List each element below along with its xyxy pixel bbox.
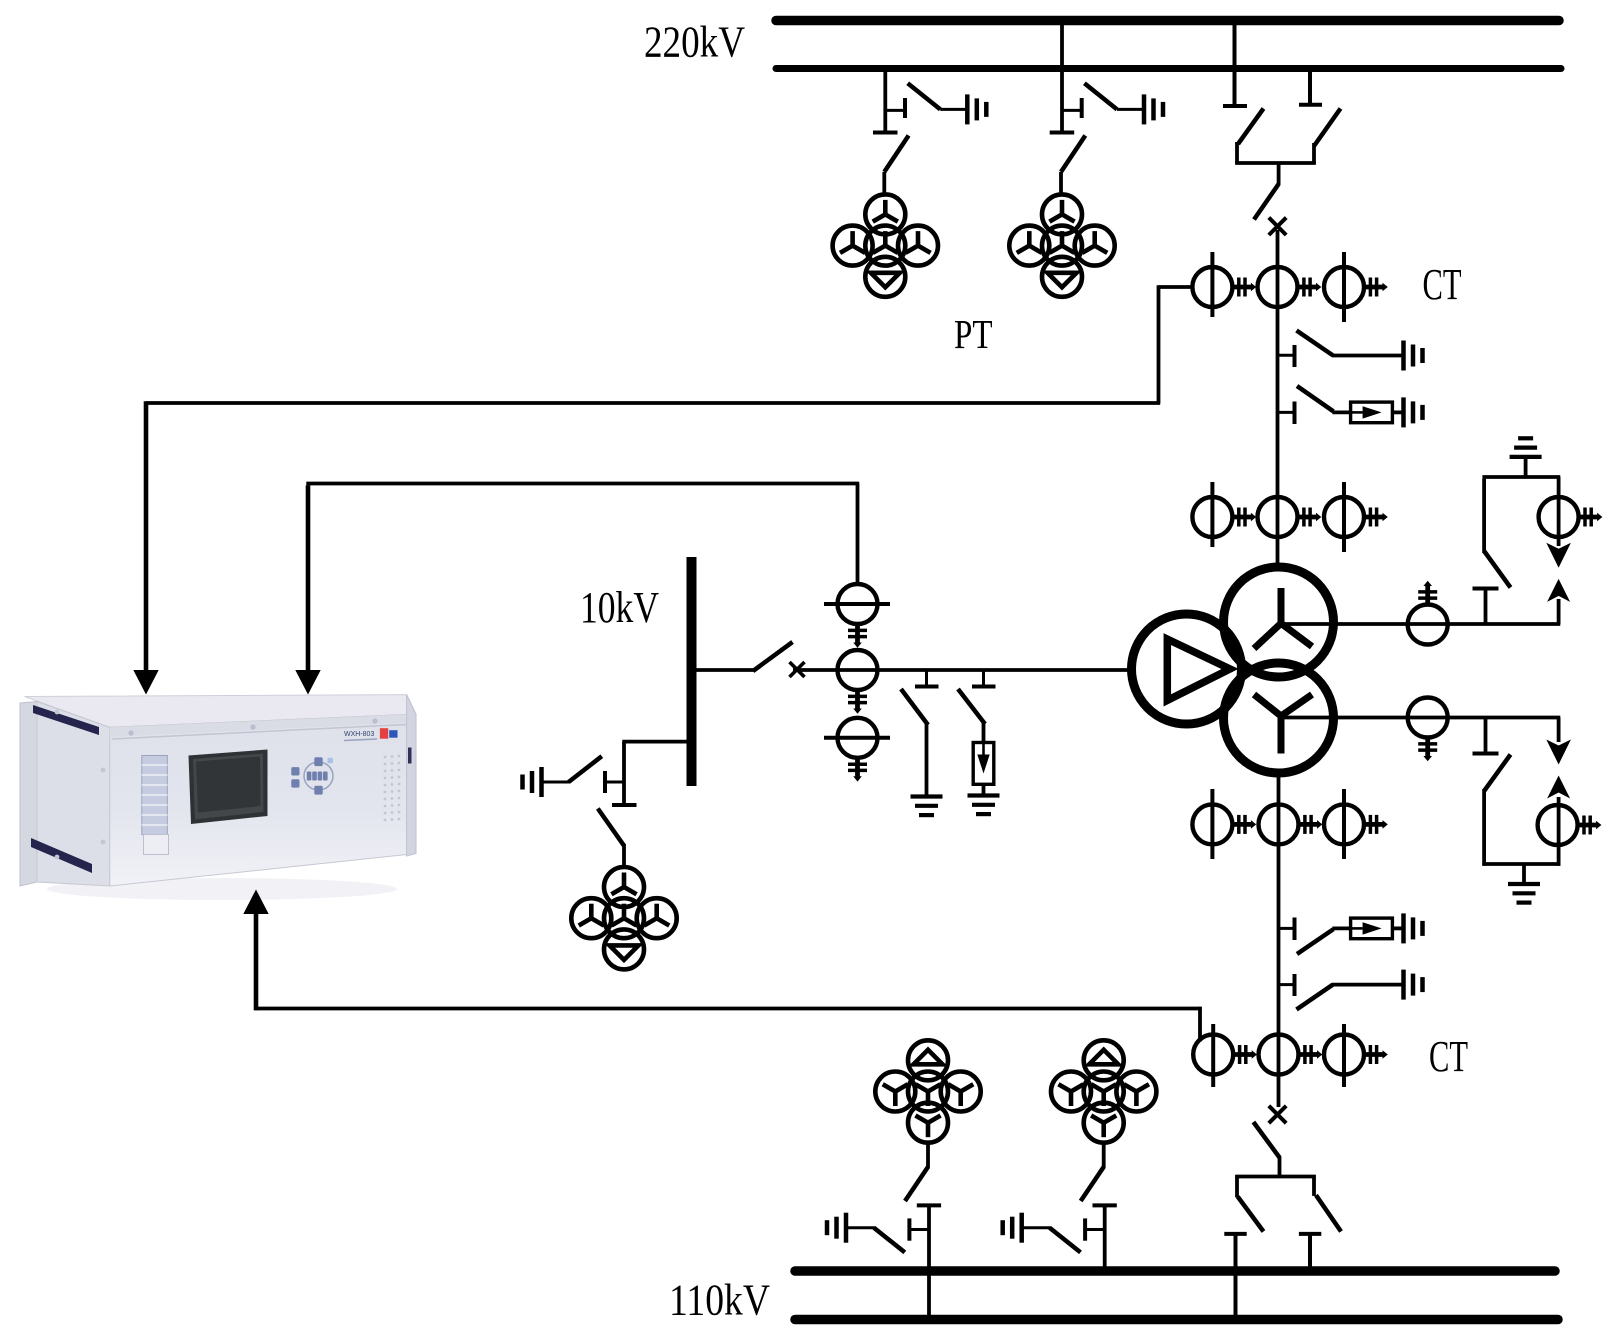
- svg-text:10kV: 10kV: [580, 583, 659, 632]
- disconnect DS4 blade: [1314, 109, 1341, 147]
- disconnect DSN1 blade: [1484, 479, 1510, 588]
- svg-text:PT: PT: [954, 311, 993, 357]
- ground ES3: [1404, 341, 1423, 371]
- disconnect switch DS2 blade: [1061, 136, 1085, 196]
- CT CT2c: [1324, 482, 1388, 552]
- CT CT1c: [1324, 252, 1388, 322]
- ground ES1: [967, 94, 986, 124]
- PT PT2 (220kV): [1009, 194, 1114, 296]
- wire gap2 lower: [1557, 797, 1561, 866]
- disconnect DSN2 contact: [1473, 718, 1499, 754]
- spark gap G2 arrow up: [1547, 776, 1570, 799]
- CT CTN3 on neutral: [1408, 698, 1448, 762]
- disconnect DS7 contact cap: [1299, 1232, 1321, 1236]
- wire gap lower: [1557, 599, 1561, 624]
- transformer 220kV winding (Y): [1224, 567, 1334, 677]
- breaker CB1 X: [1269, 218, 1286, 235]
- disconnect switch DS2 cap: [1050, 131, 1075, 135]
- bus 110kV-IV: [795, 1315, 1558, 1325]
- wire ES2 to ground: [1117, 108, 1142, 111]
- PT PT1 (220kV): [833, 194, 938, 296]
- wire coupler bracket: [1235, 142, 1315, 185]
- earthing switch ES6 blade: [1050, 1228, 1081, 1253]
- wire ES7 to ground: [925, 724, 929, 795]
- CT CT5a: [824, 584, 890, 648]
- disconnect DS6 blade: [1238, 1197, 1264, 1232]
- disconnect tick for arrester F1: [1278, 402, 1295, 425]
- wire 10kV feeder to transformer: [793, 668, 1134, 672]
- disconnect switch DS10 cap: [612, 803, 637, 807]
- disconnect DSN2 blade: [1484, 755, 1510, 866]
- wire ES3 to ground: [1332, 354, 1403, 358]
- spark gap G2 arrow down: [1546, 740, 1571, 765]
- earthing switch ES4 contact tick: [1279, 974, 1295, 996]
- disconnect switch DS9 blade: [1081, 1144, 1104, 1201]
- ground ES5: [827, 1213, 846, 1243]
- wire PT2 stem: [1060, 21, 1064, 132]
- disconnect DS3 contact cap: [1223, 104, 1247, 108]
- wire 110kV neutral: [1283, 716, 1560, 720]
- switch blade F2: [1297, 929, 1333, 954]
- wire PT5 tap: [622, 742, 691, 803]
- wire coupler bracket bottom: [1235, 1156, 1315, 1197]
- surge arrester F3: [973, 743, 994, 785]
- disconnect DS7 blade: [1316, 1195, 1341, 1231]
- disconnect DSN1 contact: [1473, 589, 1499, 625]
- wire F1 to ground: [1392, 410, 1403, 414]
- wire coupler to bus III: [1308, 1234, 1312, 1271]
- wire F2 to ground: [1392, 927, 1403, 931]
- disconnect switch DS8 blade: [905, 1144, 928, 1201]
- earthing switch ES2 blade: [1084, 83, 1117, 109]
- breaker CB3 X: [790, 662, 805, 677]
- disconnect switch DS1 blade: [884, 136, 908, 196]
- CT CTN1 on neutral: [1408, 581, 1448, 645]
- switch blade F1: [1297, 386, 1333, 411]
- bus 220kV-II: [776, 65, 1561, 72]
- CT CT5b: [838, 650, 878, 714]
- CT CT1b: [1258, 267, 1322, 307]
- earthing switch ES5 blade: [874, 1228, 905, 1253]
- disconnect switch DS10 contact tick: [605, 771, 624, 793]
- svg-text:220kV: 220kV: [644, 18, 745, 67]
- CT CT3b: [1259, 804, 1323, 844]
- wire main 220kV: [1276, 230, 1280, 567]
- CT CT1a: [1192, 252, 1256, 317]
- wire main 110kV side: [1277, 771, 1281, 1107]
- PT PT5 (10kV): [571, 867, 676, 969]
- disconnect DS4 contact cap: [1299, 103, 1322, 107]
- wire neutral ground header: [1482, 475, 1560, 479]
- svg-text:CT: CT: [1423, 260, 1462, 309]
- CT CT2b: [1258, 497, 1322, 537]
- wire gap2 upper: [1557, 718, 1561, 743]
- wire PT3 stem: [927, 1205, 931, 1319]
- ground ES2: [1144, 94, 1163, 124]
- wire to arrester F1: [1332, 410, 1351, 414]
- spark gap G1 arrow down: [1546, 543, 1571, 568]
- CT CTN4 on gap2: [1538, 805, 1602, 845]
- CT CT4c: [1324, 1024, 1388, 1087]
- ground F2: [1404, 913, 1423, 943]
- arrow W3 into relay: [243, 890, 268, 915]
- wire ground stub GN2: [1522, 864, 1526, 882]
- wire ES6 from ground: [1022, 1226, 1051, 1229]
- wire ES1 to ground: [940, 108, 965, 111]
- transformer 110kV winding (Y): [1224, 663, 1334, 773]
- CT CT4b: [1259, 1035, 1323, 1075]
- breaker CB2 X: [1269, 1106, 1286, 1123]
- wire coupler drop from bus I: [1233, 21, 1237, 107]
- bus 220kV-I: [776, 16, 1559, 26]
- wire ES8 from ground: [542, 781, 570, 784]
- arrow W1 into relay: [133, 670, 158, 695]
- wire PT1 stem: [883, 69, 887, 132]
- surge arrester F1: [1351, 402, 1393, 423]
- earthing switch ES3 blade: [1297, 331, 1333, 356]
- wire ES5 from ground: [846, 1226, 875, 1229]
- disconnect switch DS9 cap: [1093, 1203, 1117, 1207]
- spark gap G1 arrow up: [1547, 579, 1570, 602]
- disconnect DS6 contact cap: [1224, 1232, 1246, 1236]
- earthing switch ES7 contact tick: [915, 670, 939, 687]
- wire W3 CT4a to relay: [254, 913, 1201, 1042]
- surge arrester F2: [1351, 918, 1393, 939]
- disconnect switch DS2 contact tick: [1062, 98, 1082, 118]
- CT CT5c: [824, 718, 890, 782]
- ground ES6: [1003, 1213, 1022, 1243]
- breaker CB2 blade: [1253, 1122, 1279, 1158]
- CT CT3a: [1192, 789, 1256, 859]
- wire ES4 to ground: [1332, 983, 1403, 987]
- ground ES4: [1404, 970, 1423, 1000]
- disconnect switch DS8 cap: [917, 1203, 941, 1207]
- PT PT3 (110kV): [875, 1040, 980, 1142]
- wire 10kV feeder: [695, 668, 754, 672]
- ground GN1: [1510, 438, 1542, 457]
- ground GN2: [1508, 884, 1540, 903]
- earthing switch ES1 blade: [908, 83, 941, 109]
- protection relay device: [20, 695, 416, 900]
- wire W1 CT1a to relay: [146, 285, 1193, 671]
- CT CTN2 on gap: [1539, 497, 1603, 537]
- wire PT4 stem: [1103, 1205, 1107, 1271]
- CT CT3c: [1324, 789, 1388, 859]
- wire to arrester F2: [1332, 927, 1351, 931]
- disconnect tick for arrester F2: [1279, 918, 1295, 941]
- arrow W2 into relay: [295, 670, 320, 695]
- CT CT2a: [1192, 482, 1256, 547]
- disconnect tick for arrester F3: [972, 670, 996, 687]
- switch blade F3: [958, 689, 985, 724]
- wire neutral ground footer: [1482, 862, 1560, 866]
- wire coupler drop from bus II: [1308, 69, 1312, 105]
- wire coupler to bus IV: [1234, 1234, 1238, 1320]
- wire F3 to ground: [982, 784, 986, 794]
- disconnect DS3 blade: [1238, 109, 1264, 145]
- ground F3: [968, 796, 1000, 815]
- earthing switch ES8 blade: [569, 756, 602, 782]
- transformer 10kV winding (delta): [1132, 614, 1242, 724]
- breaker CB1 blade: [1254, 184, 1279, 220]
- CT CT4a: [1193, 1024, 1257, 1087]
- disconnect switch DS10 blade: [598, 809, 624, 868]
- bus 110kV-III: [795, 1266, 1555, 1276]
- wire 220kV neutral: [1283, 622, 1560, 626]
- svg-text:110kV: 110kV: [669, 1276, 770, 1325]
- ground ES8: [523, 767, 542, 797]
- ground ES7: [911, 797, 943, 816]
- svg-text:CT: CT: [1429, 1032, 1468, 1081]
- svg-text:WXH-803: WXH-803: [344, 731, 374, 738]
- wire ground stub GN1: [1524, 458, 1528, 477]
- disconnect DS5 blade: [753, 642, 793, 671]
- disconnect switch DS1 contact tick: [885, 98, 905, 118]
- bus 10kV: [687, 557, 697, 786]
- wire W2 relay to CT5a: [306, 484, 859, 672]
- wire gap upper: [1557, 477, 1561, 546]
- ground F1: [1404, 397, 1423, 427]
- earthing switch ES7 blade: [901, 689, 928, 725]
- disconnect switch DS9 contact tick: [1085, 1218, 1105, 1240]
- earthing switch ES4 blade: [1297, 985, 1333, 1010]
- disconnect switch DS8 contact tick: [909, 1218, 929, 1240]
- disconnect switch DS1 cap: [873, 131, 898, 135]
- PT PT4 (110kV): [1051, 1040, 1156, 1142]
- earthing switch ES3 contact tick: [1278, 345, 1295, 367]
- wire to arrester F3: [982, 723, 986, 743]
